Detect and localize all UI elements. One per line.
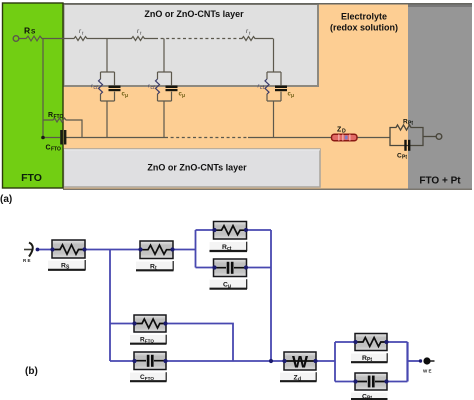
svg-text:S: S [31, 29, 36, 36]
svg-text:Pt: Pt [367, 357, 372, 363]
svg-text:Pt: Pt [402, 155, 407, 161]
svg-text:μ: μ [125, 93, 128, 99]
svg-text:FTO: FTO [21, 172, 42, 184]
svg-text:R E: R E [23, 258, 31, 263]
svg-text:ct: ct [260, 85, 265, 91]
svg-text:R: R [48, 112, 53, 119]
svg-text:Electrolyte: Electrolyte [341, 12, 387, 22]
svg-text:(a): (a) [0, 194, 12, 205]
svg-text:(b): (b) [25, 366, 38, 377]
svg-text:ZnO or ZnO-CNTs layer: ZnO or ZnO-CNTs layer [144, 9, 244, 19]
svg-text:ZnO or ZnO-CNTs layer: ZnO or ZnO-CNTs layer [147, 163, 247, 173]
svg-text:μ: μ [291, 93, 294, 99]
svg-text:μ: μ [182, 93, 185, 99]
svg-text:W E: W E [423, 369, 432, 374]
svg-text:FTO + Pt: FTO + Pt [419, 176, 461, 187]
svg-text:ct: ct [151, 85, 156, 91]
svg-text:FTO: FTO [145, 376, 155, 381]
svg-text:W: W [292, 353, 309, 372]
svg-text:FTO: FTO [145, 338, 155, 343]
svg-text:Pt: Pt [367, 395, 372, 400]
svg-text:ct: ct [94, 85, 99, 91]
svg-text:FTO: FTO [51, 147, 61, 153]
svg-text:ct: ct [227, 246, 232, 252]
svg-text:(redox solution): (redox solution) [330, 23, 398, 33]
svg-text:μ: μ [228, 283, 231, 289]
svg-text:R: R [24, 26, 30, 36]
svg-text:d: d [298, 376, 301, 382]
svg-text:C: C [46, 145, 51, 152]
svg-text:Pt: Pt [408, 121, 413, 127]
svg-text:FTO: FTO [54, 114, 64, 120]
svg-text:D: D [342, 129, 346, 135]
